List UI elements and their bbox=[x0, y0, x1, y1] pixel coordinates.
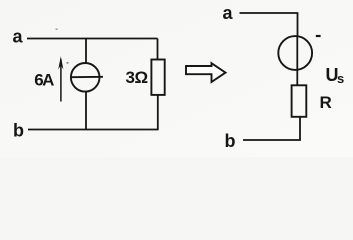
current source I1 6A bbox=[71, 63, 103, 92]
current direction arrow bbox=[58, 56, 63, 101]
wire bottom left circuit bbox=[28, 129, 159, 131]
wire current-source branch top bbox=[85, 39, 87, 65]
polarity minus sign bbox=[316, 35, 321, 37]
speck bbox=[67, 62, 69, 64]
speck bbox=[56, 29, 58, 30]
svg-text:b: b bbox=[13, 121, 24, 141]
svg-text:b: b bbox=[225, 131, 236, 151]
wire resistor branch top bbox=[157, 39, 159, 61]
resistor R1 3ohm bbox=[151, 60, 164, 95]
voltage source Us bbox=[278, 36, 312, 85]
resistor R bbox=[292, 85, 307, 117]
svg-text:a: a bbox=[13, 27, 24, 47]
wire bottom right circuit bbox=[243, 117, 300, 140]
svg-text:R: R bbox=[320, 93, 332, 112]
equivalence arrow bbox=[186, 63, 226, 82]
svg-text:s: s bbox=[337, 71, 344, 86]
wire current-source branch bottom bbox=[85, 91, 87, 130]
svg-text:3Ω: 3Ω bbox=[126, 68, 148, 87]
wire top left circuit bbox=[27, 38, 158, 40]
wire resistor branch bottom bbox=[157, 95, 159, 130]
svg-text:a: a bbox=[223, 3, 234, 23]
svg-text:6A: 6A bbox=[34, 71, 54, 90]
wire top right circuit bbox=[240, 13, 298, 37]
